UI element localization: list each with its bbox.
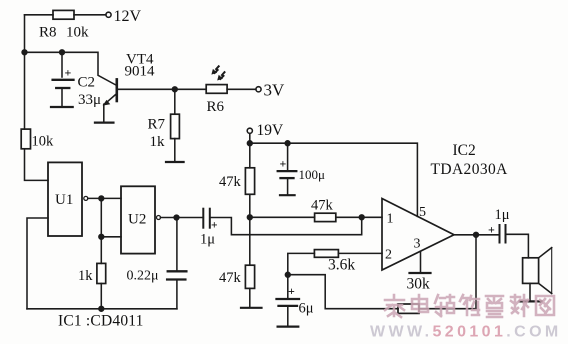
wire divider to 47k series [250, 216, 315, 218]
resistor 1k (timing) [78, 237, 106, 309]
ground (pin3) [410, 272, 431, 274]
wire pin3 down [420, 252, 422, 273]
svg-text:47k: 47k [219, 174, 242, 190]
node I (100u tap) [285, 141, 290, 146]
resistor R6 (photo) [206, 85, 227, 115]
svg-text:IC1 :CD4011: IC1 :CD4011 [58, 313, 144, 330]
svg-text:C2: C2 [78, 75, 96, 91]
svg-text:3.6k: 3.6k [328, 257, 355, 274]
svg-text:47k: 47k [311, 198, 334, 214]
svg-text:47k: 47k [219, 270, 242, 286]
svg-text:+: + [488, 223, 495, 237]
speaker [523, 248, 552, 301]
wire feedback right [419, 308, 476, 310]
svg-text:12V: 12V [114, 8, 142, 25]
node E [99, 234, 104, 239]
resistor 47k (lower) [219, 265, 255, 288]
ground (divider) [241, 307, 262, 309]
wire 3.6k to node M [288, 253, 315, 299]
wire base row [117, 88, 206, 90]
svg-text:TDA2030A: TDA2030A [431, 161, 509, 178]
ground (speaker) [520, 300, 542, 302]
resistor 47k (series) [311, 198, 336, 222]
wire top row to collector [25, 52, 117, 85]
wire D down to E [100, 198, 102, 236]
svg-text:0.22μ: 0.22μ [127, 269, 159, 284]
svg-text:+: + [280, 157, 287, 171]
svg-text:10k: 10k [32, 134, 55, 150]
ground (R7) [166, 161, 184, 163]
wire divider mid [249, 194, 251, 265]
wire output row [454, 234, 500, 236]
node J (divider) [247, 215, 252, 220]
resistor R8 [39, 10, 89, 40]
svg-text:5: 5 [419, 205, 426, 220]
svg-text:R8: R8 [39, 25, 57, 41]
wire 47k series to pin1 [336, 216, 382, 218]
node L (output) [474, 232, 479, 237]
ground (C2) [51, 106, 73, 108]
svg-text:R6: R6 [207, 99, 225, 115]
svg-text:30k: 30k [407, 276, 431, 293]
svg-text:3V: 3V [264, 81, 286, 100]
node F (1k/rail) [99, 306, 104, 311]
capacitor 0.22u [127, 218, 187, 309]
gate U2 [121, 186, 161, 253]
node D [99, 196, 104, 201]
resistor R7 1k [148, 89, 180, 161]
watermark line1 [385, 295, 554, 317]
wire U1 feedback (lower input) [27, 218, 48, 309]
terminal 3V [256, 81, 285, 100]
svg-text:1k: 1k [150, 134, 166, 150]
resistor feedback [398, 304, 419, 313]
wire R8 right to 12V terminal [74, 14, 106, 16]
svg-text:1k: 1k [78, 268, 93, 284]
svg-text:10k: 10k [66, 25, 89, 41]
node H (19V row) [247, 141, 252, 146]
svg-text:1μ: 1μ [495, 207, 510, 223]
svg-text:+: + [288, 284, 295, 298]
wire U2 out [161, 217, 204, 219]
terminal 12V [106, 8, 142, 25]
resistor 10k (rail) [21, 129, 54, 149]
wire feedback row [288, 275, 398, 309]
light arrows [211, 66, 224, 80]
capacitor 1u (output) [488, 207, 510, 243]
svg-text:1μ: 1μ [200, 232, 215, 248]
resistor 3.6k [314, 250, 355, 274]
node B (C2 tap) [60, 50, 65, 55]
svg-text:WWW.520101.COM: WWW.520101.COM [370, 324, 562, 341]
node M (pin2 net) [285, 272, 290, 277]
svg-text:33μ: 33μ [78, 92, 101, 108]
wire 1u to speaker [506, 234, 529, 257]
svg-text:3: 3 [414, 237, 421, 252]
ground (emitter) [95, 121, 113, 123]
svg-text:IC2: IC2 [453, 142, 476, 159]
svg-text:+: + [211, 220, 218, 232]
node G (0.22u tap) [174, 215, 179, 220]
svg-text:+: + [65, 66, 72, 80]
transistor VT4 9014 [103, 52, 155, 122]
resistor 47k (upper) [219, 168, 255, 195]
svg-text:R7: R7 [148, 117, 166, 133]
wire left rail [24, 15, 26, 129]
capacitor 100u [278, 143, 325, 194]
svg-text:U2: U2 [128, 212, 146, 228]
capacitor C2 33u [53, 52, 101, 108]
svg-text:19V: 19V [257, 122, 285, 139]
wire output down to feedback [475, 235, 477, 309]
wire 1u to pin1 jog [210, 217, 362, 234]
svg-text:100μ: 100μ [299, 167, 326, 182]
svg-text:9014: 9014 [125, 64, 156, 80]
ground (100u) [280, 194, 295, 196]
wire 47k lower to ground [249, 288, 251, 307]
wire rail to U1 input [25, 149, 49, 181]
wire pin2 row [338, 252, 382, 254]
wire R6 to 3V [227, 88, 256, 90]
op-amp IC2 TDA2030A [382, 142, 508, 270]
svg-text:6μ: 6μ [299, 301, 314, 317]
gate U1 [48, 162, 88, 236]
terminal 19V [247, 122, 284, 139]
wire U1 out row [88, 197, 121, 199]
wire E to U2 input [101, 236, 121, 238]
svg-text:2: 2 [385, 248, 392, 263]
node A (rail/C2 row) [22, 50, 27, 55]
capacitor 1u (coupling) [200, 209, 218, 248]
svg-text:U1: U1 [55, 192, 73, 208]
svg-text:1: 1 [387, 212, 394, 227]
node C (base/R7/R6) [172, 87, 177, 92]
node K (pin1) [359, 215, 364, 220]
wire R8 left to rail [25, 14, 54, 16]
wire bottom rail [27, 308, 177, 310]
capacitor 6u [277, 284, 314, 326]
ground (6u) [278, 326, 299, 328]
wire 19V down [249, 133, 251, 167]
wire 19V row to pin5 [250, 143, 418, 216]
